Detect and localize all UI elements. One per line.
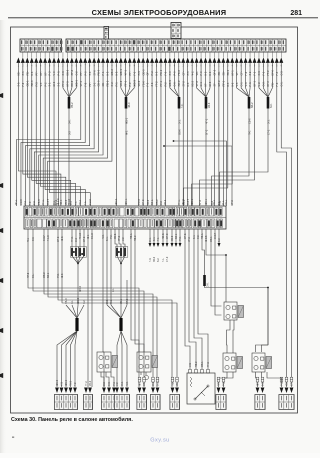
svg-text:ОБ-1: ОБ-1 (201, 361, 204, 367)
wire from strip x=88 (87, 229, 89, 387)
wire labels below middle strip (27, 232, 221, 242)
svg-text:КГ-2: КГ-2 (231, 200, 234, 205)
svg-text:ГБ-2: ГБ-2 (70, 380, 73, 386)
wire from top pin 32 (156, 63, 158, 206)
svg-text:ГБ-2: ГБ-2 (79, 199, 82, 205)
arrow stub wire x=150 (149, 229, 151, 243)
connector XB10 (255, 380, 265, 410)
wire from top pin 28 (138, 63, 140, 206)
svg-text:Р-2.0: Р-2.0 (138, 199, 141, 205)
wire from top pin 9 (53, 63, 55, 206)
svg-text:ЧБ-0: ЧБ-0 (128, 102, 131, 108)
svg-text:СБ-0: СБ-0 (38, 199, 41, 205)
svg-text:З-0.: З-0. (206, 282, 210, 287)
svg-text:ПБ-1.: ПБ-1. (201, 233, 204, 239)
svg-text:Г-0.: Г-0. (149, 258, 152, 262)
svg-text:Р-0.: Р-0. (179, 236, 182, 241)
wire from strip x=28 (28, 229, 139, 387)
wire from top pin 3 (27, 63, 65, 206)
svg-text:Ж-3: Ж-3 (61, 273, 64, 278)
connector X4 (raised 2x3) (171, 23, 181, 39)
wire from top pin 33 (160, 63, 162, 206)
wires into XB3 (103, 352, 105, 387)
relay K1 (97, 352, 118, 372)
svg-text:ЖБ-3: ЖБ-3 (65, 379, 68, 386)
relay K5 (252, 353, 272, 372)
svg-text:ЧБ-1: ЧБ-1 (60, 199, 63, 205)
wire from top pin 8 (50, 63, 91, 206)
svg-text:КБ-3: КБ-3 (208, 102, 211, 108)
svg-text:КБ-3: КБ-3 (89, 380, 92, 386)
svg-text:З-3: З-3 (68, 131, 71, 135)
wire from top pin 10 (57, 63, 59, 206)
wire from top pin 39 (187, 63, 189, 206)
relay K3 link down (227, 320, 231, 353)
svg-text:С-3: С-3 (75, 237, 78, 242)
wire from top pin 7 (45, 63, 85, 206)
svg-text:ПГ-2: ПГ-2 (126, 298, 129, 304)
pin numbers under arrowheads (18, 65, 283, 67)
splice B2 (106, 298, 129, 387)
relay K5 leads (256, 372, 258, 387)
svg-text:Ч-0.: Ч-0. (126, 381, 129, 386)
svg-text:Г-1.: Г-1. (84, 201, 87, 205)
svg-text:КБ-3: КБ-3 (164, 199, 167, 205)
svg-text:П-1: П-1 (27, 237, 30, 242)
wire from top pin 18 (30, 63, 94, 206)
svg-text:ББ-2: ББ-2 (251, 102, 254, 108)
wire from top pin 49 (192, 63, 233, 206)
svg-text:К-0.: К-0. (189, 362, 192, 367)
svg-text:ЖБ-1: ЖБ-1 (125, 117, 128, 124)
wire from strip x=33 (33, 229, 144, 387)
wire from strip x=48 (48, 229, 157, 387)
svg-text:ОБ-2: ОБ-2 (156, 199, 159, 205)
connector XB3 (101, 381, 116, 409)
wire from strip x=62 (62, 229, 177, 387)
svg-text:З-0.: З-0. (68, 119, 71, 124)
svg-text:ГГ-0.: ГГ-0. (71, 236, 74, 242)
connector XB2 (83, 380, 92, 409)
branch wire with junction at (173.5,141) (174, 141, 227, 206)
svg-text:ЧГ-1: ЧГ-1 (205, 118, 208, 124)
svg-text:С-0.7: С-0.7 (214, 232, 217, 239)
svg-text:ЗБ-0: ЗБ-0 (171, 235, 174, 241)
svg-text:СГ-0: СГ-0 (166, 256, 169, 262)
arrow stub wire x=176 (175, 229, 177, 243)
wire from top pin 5 (36, 63, 75, 206)
wire from top pin 60 (281, 63, 291, 387)
left page-edge shading (0, 20, 7, 453)
svg-text:БГ-2: БГ-2 (205, 129, 208, 135)
svg-text:ЧГ-1.: ЧГ-1. (15, 199, 18, 205)
svg-text:КБ-1: КБ-1 (120, 298, 123, 304)
svg-text:ГБ-1: ГБ-1 (213, 199, 216, 205)
page-edge registration marks (0, 93, 3, 378)
wires to relay K2 (131, 229, 139, 352)
label band y~270 (27, 272, 115, 292)
svg-text:О-0.: О-0. (106, 299, 109, 304)
wire from top pin 15 (17, 63, 81, 206)
branch wire with junction at (164,146) (164, 146, 232, 206)
wire from top pin 54 (200, 63, 255, 206)
connector XB4 (114, 381, 129, 409)
svg-text:Ж-0.5: Ж-0.5 (205, 235, 208, 242)
svg-text:Б-1.: Б-1. (106, 236, 109, 241)
wire from top pin 16 (21, 63, 85, 206)
svg-text:СГ-1: СГ-1 (267, 129, 270, 135)
svg-text:ГГ-1.: ГГ-1. (178, 199, 181, 205)
wire from top pin 46 (218, 63, 220, 206)
svg-text:С-1.: С-1. (149, 237, 152, 242)
svg-text:О-0.7: О-0.7 (47, 198, 50, 205)
wire code labels (top band) (17, 69, 284, 87)
svg-text:З-2.: З-2. (197, 234, 200, 239)
wire from strip x=92 (91, 229, 93, 387)
wire from top pin 17 (25, 63, 89, 206)
connector XB6 (170, 380, 180, 410)
svg-text:З-1.: З-1. (178, 119, 181, 124)
svg-text:З-1.0: З-1.0 (91, 233, 94, 239)
connector strip X1 (top left) (20, 39, 63, 52)
wire from top pin 47 (222, 63, 224, 206)
svg-text:Г-0.: Г-0. (181, 103, 184, 108)
svg-text:Ж-1: Ж-1 (125, 130, 128, 135)
svg-text:ЧБ-0.: ЧБ-0. (162, 233, 165, 239)
svg-text:ОГ-2: ОГ-2 (57, 236, 60, 242)
wire from top pin 59 (277, 63, 287, 387)
merge splice at x=249 (212, 63, 255, 206)
arrow stub wire x=180 (179, 229, 181, 243)
wire from top pin 40 (191, 63, 193, 206)
svg-text:ОГ-2: ОГ-2 (83, 236, 86, 242)
svg-text:З-1.: З-1. (267, 119, 270, 124)
wire from strip x=44 (44, 229, 153, 387)
extra feed to B2 (126, 280, 128, 305)
merge splice at x=268 (220, 63, 274, 206)
svg-text:Gxy.su: Gxy.su (150, 438, 169, 444)
top terminal arrowheads row (16, 58, 283, 63)
inline connector beads on bottom wires (138, 377, 293, 382)
connector XB5a (137, 380, 147, 410)
svg-text:ББ-1: ББ-1 (47, 272, 50, 278)
merge splice at x=69 (63, 63, 76, 206)
relay K2 bottom leads (140, 372, 142, 375)
svg-text:РБ-2: РБ-2 (71, 102, 74, 108)
wire from top pin 34 (164, 63, 166, 206)
wire from top pin 19 (34, 63, 98, 206)
wire from top pin 30 (147, 63, 149, 206)
svg-text:С-2: С-2 (103, 381, 106, 386)
svg-text:Г-1.: Г-1. (162, 258, 165, 262)
svg-text:Р-2: Р-2 (281, 382, 284, 386)
wire from top pin 21 (43, 63, 107, 206)
wire from top pin 20 (39, 63, 103, 206)
svg-text:К-0.: К-0. (61, 381, 64, 386)
arrow stub wire x=154 (153, 229, 155, 243)
svg-text:ОБ-1: ОБ-1 (210, 236, 213, 242)
diode group D1 (70, 229, 86, 305)
connector XB1 (54, 379, 77, 409)
svg-text:РБ-2: РБ-2 (183, 199, 186, 205)
merge splice at x=126 (121, 63, 134, 206)
wire to relay K1 (102, 229, 104, 352)
wire from top pin 2 (23, 63, 61, 206)
svg-text:ГГ-2: ГГ-2 (85, 381, 88, 386)
svg-text:СБ-0: СБ-0 (248, 118, 251, 124)
relay K3 (right upper) (224, 302, 244, 320)
diode group D2 (115, 229, 128, 305)
svg-text:ББ-1.: ББ-1. (151, 199, 154, 205)
wire XB11 extra (267, 372, 282, 387)
svg-text:Ж-1: Ж-1 (87, 234, 90, 239)
connector strip X2 (top main) (66, 39, 286, 52)
svg-text:Ч-0.: Ч-0. (102, 234, 105, 239)
svg-text:З-0.: З-0. (108, 381, 111, 386)
wire from top pin 38 (182, 63, 184, 206)
schematic frame (11, 27, 298, 413)
svg-text:ЖБ-1: ЖБ-1 (191, 198, 194, 205)
wire labels above middle strip (15, 198, 234, 205)
svg-text:З-0.7: З-0.7 (43, 235, 46, 241)
wires to splice B2 (106, 229, 108, 305)
svg-text:Схема 30. Панель реле в салоне: Схема 30. Панель реле в салоне автомобил… (11, 416, 133, 423)
svg-text:З-2.: З-2. (83, 299, 86, 304)
relay K4 (223, 353, 243, 372)
svg-text:Б-0.: Б-0. (270, 103, 273, 108)
connector XB8 (216, 380, 226, 409)
terminal stubs between strip and arrowheads (23, 52, 281, 58)
labels near relays (149, 256, 210, 367)
svg-text:ГБ-1.: ГБ-1. (225, 199, 228, 205)
relay K1 bottom leads (101, 372, 104, 387)
svg-text:О-2.: О-2. (121, 381, 124, 386)
wire from top pin 29 (142, 63, 144, 206)
svg-text:З-2.0: З-2.0 (89, 199, 92, 205)
merge splice at x=179 (170, 63, 184, 206)
svg-text:С-2: С-2 (160, 200, 163, 205)
svg-text:ЖБ-1.: ЖБ-1. (125, 198, 128, 205)
relay K2 (137, 352, 158, 372)
wire from top pin 45 (213, 63, 215, 206)
wires to lower-right components (185, 229, 190, 369)
header rule (8, 17, 318, 19)
svg-text:БГ-2: БГ-2 (199, 199, 202, 205)
svg-text:ПБ-2: ПБ-2 (134, 235, 137, 241)
svg-text:281: 281 (290, 10, 302, 17)
merge splice at x=206 (197, 63, 211, 206)
connector X3 (raised small) (104, 27, 109, 40)
svg-text:ЗБ-0: ЗБ-0 (153, 256, 156, 262)
wire from top pin 31 (151, 63, 153, 206)
svg-text:Г-1.: Г-1. (75, 201, 78, 205)
arrow stub wire x=172 (171, 229, 173, 243)
svg-text:ГГ-1.: ГГ-1. (42, 199, 45, 205)
main relay-panel connector strip (middle) (24, 206, 226, 229)
svg-text:П-1.: П-1. (110, 299, 113, 304)
svg-text:ОГ-0: ОГ-0 (142, 199, 145, 205)
wire from top pin 1 (18, 63, 56, 206)
svg-text:Р-2.: Р-2. (110, 234, 113, 239)
svg-text:О-0.7: О-0.7 (187, 198, 190, 205)
svg-text:З-1.: З-1. (32, 273, 35, 278)
svg-text:П-1.0: П-1.0 (79, 232, 82, 239)
stray scan mark bottom-left (12, 437, 14, 438)
svg-text:С-1: С-1 (70, 200, 73, 205)
wire from top pin 6 (41, 63, 81, 206)
fusible link F7 (203, 275, 206, 286)
svg-text:ЖБ-0: ЖБ-0 (79, 285, 82, 292)
svg-text:ОБ-0: ОБ-0 (178, 129, 181, 135)
arrow stub wire x=163 (162, 229, 164, 243)
svg-text:ПБ-1.: ПБ-1. (130, 233, 133, 239)
svg-text:ОБ-2: ОБ-2 (43, 272, 46, 278)
svg-text:СХЕМЫ ЭЛЕКТРООБОРУДОВАНИЯ: СХЕМЫ ЭЛЕКТРООБОРУДОВАНИЯ (92, 8, 227, 17)
svg-text:ЗБ-0.: ЗБ-0. (114, 233, 117, 239)
svg-text:ОГ-0: ОГ-0 (166, 233, 169, 239)
svg-text:РГ-0: РГ-0 (118, 235, 121, 241)
svg-text:КГ-2: КГ-2 (188, 237, 191, 242)
svg-text:ББ-1: ББ-1 (175, 233, 178, 239)
svg-text:Р-0.: Р-0. (57, 273, 60, 278)
svg-text:ОГ-2.: ОГ-2. (184, 233, 187, 239)
svg-text:ЖБ-0: ЖБ-0 (56, 379, 59, 386)
connector XB11 (279, 380, 294, 409)
svg-text:ЗБ-0: ЗБ-0 (147, 199, 150, 205)
svg-text:Ж-0.: Ж-0. (61, 236, 64, 241)
svg-text:ЖБ-0: ЖБ-0 (77, 297, 80, 304)
svg-text:ПГ-0: ПГ-0 (27, 272, 30, 278)
svg-text:К-2.0: К-2.0 (20, 199, 23, 205)
svg-text:ПБ-2: ПБ-2 (195, 361, 198, 367)
svg-text:Г-1.0: Г-1.0 (47, 235, 50, 241)
splice B1 (57, 297, 86, 387)
wire from top pin 48 (184, 63, 228, 206)
svg-text:ПБ-0: ПБ-0 (65, 298, 68, 304)
arrow stub wire x=167 (166, 229, 168, 243)
wire from top pin 4 (32, 63, 71, 206)
wire from strip x=58 (58, 229, 172, 387)
svg-text:ЖБ-1: ЖБ-1 (205, 198, 208, 205)
wire from top pin 23 (115, 63, 117, 206)
ignition switch box S1 (187, 370, 215, 405)
connector XB5b (150, 381, 160, 409)
wire from top pin 22 (48, 63, 112, 206)
arrow stub wire x=158 (157, 229, 159, 243)
svg-text:П-0.: П-0. (248, 130, 251, 135)
svg-text:ЖБ-0.: ЖБ-0. (115, 198, 118, 205)
svg-text:Р-3: Р-3 (24, 201, 27, 205)
relay K4 leads (219, 372, 228, 387)
svg-text:ГГ-3: ГГ-3 (207, 362, 210, 367)
